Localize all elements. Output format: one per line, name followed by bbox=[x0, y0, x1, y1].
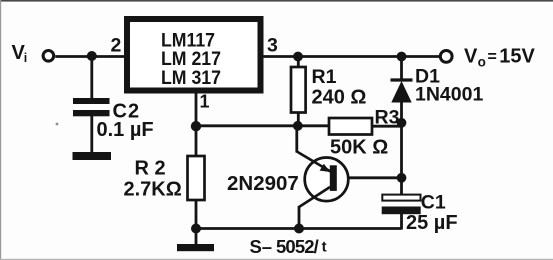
wire ground stub bbox=[195, 229, 198, 247]
wire collector lead bbox=[298, 206, 301, 230]
junction collector node bbox=[294, 224, 304, 234]
terminal Vo bbox=[440, 51, 452, 63]
svg-text:240 Ω: 240 Ω bbox=[312, 87, 367, 109]
ground main bbox=[177, 244, 214, 251]
node Vo = 15V label bbox=[464, 46, 536, 70]
wire pin 3 output rail bbox=[261, 55, 440, 58]
svg-text:C1: C1 bbox=[421, 192, 446, 214]
svg-text:1N4001: 1N4001 bbox=[415, 84, 483, 106]
svg-text:t: t bbox=[322, 239, 327, 256]
wire bottom rail bbox=[196, 227, 402, 230]
capacitor C1 plate top bbox=[382, 178, 420, 201]
svg-text:50K Ω: 50K Ω bbox=[330, 137, 388, 159]
junction R3 D1 node bbox=[397, 118, 407, 128]
diode D1 bbox=[391, 57, 413, 124]
svg-text:V: V bbox=[464, 46, 478, 68]
capacitor C2 plate top bbox=[73, 98, 110, 104]
junction D1 top bbox=[397, 52, 407, 62]
wire R1 bottom lead bbox=[297, 112, 300, 126]
wire emitter lead bbox=[295, 126, 298, 153]
svg-text:–: – bbox=[262, 236, 272, 257]
wire input node to C2 bbox=[90, 57, 93, 100]
svg-text:2.7KΩ: 2.7KΩ bbox=[124, 178, 182, 200]
bottom border line bbox=[0, 259, 553, 260]
svg-text:0.1 µF: 0.1 µF bbox=[97, 119, 154, 141]
node Vi label bbox=[12, 42, 28, 65]
scan speck bbox=[56, 123, 59, 126]
wire R1 top lead bbox=[297, 57, 300, 69]
svg-text:=: = bbox=[488, 49, 497, 66]
junction R1 top bbox=[293, 52, 303, 62]
wire pin 1 bbox=[195, 93, 198, 127]
terminal Vi bbox=[43, 51, 54, 62]
op-amp U1 regulator LM117/LM217/LM317 box bbox=[127, 19, 261, 91]
top border line bbox=[0, 0, 553, 2]
resistor R1 bbox=[291, 67, 306, 113]
svg-text:1: 1 bbox=[200, 91, 210, 111]
ground C2 bbox=[73, 152, 112, 160]
wire D1 node to base node bbox=[400, 123, 403, 178]
resistor R3 bbox=[329, 118, 372, 135]
capacitor C2 plate bottom bbox=[73, 110, 110, 116]
wire R3 right lead bbox=[372, 125, 402, 128]
junction input node bbox=[87, 51, 97, 61]
svg-text:R1: R1 bbox=[312, 66, 337, 88]
junction base node bbox=[397, 173, 407, 183]
svg-text:i: i bbox=[24, 51, 27, 65]
svg-text:S: S bbox=[250, 236, 262, 257]
transistor Q1 2N2907 bbox=[297, 152, 349, 208]
svg-text:25 µF: 25 µF bbox=[406, 212, 458, 234]
capacitor C1 plate bottom bbox=[382, 207, 421, 230]
wire adjust rail bbox=[196, 124, 330, 127]
resistor R2 bbox=[188, 126, 205, 230]
svg-text:2N2907: 2N2907 bbox=[227, 172, 299, 195]
wire Vi to pin 2 bbox=[55, 55, 127, 58]
svg-text:o: o bbox=[478, 55, 486, 70]
junction ground node bbox=[191, 224, 201, 234]
svg-text:R 2: R 2 bbox=[135, 158, 166, 180]
svg-text:3: 3 bbox=[267, 35, 278, 57]
junction adjust node bbox=[191, 121, 201, 131]
figure label S-5052/t bbox=[250, 236, 327, 257]
svg-text:LM 317: LM 317 bbox=[161, 68, 221, 89]
svg-text:/: / bbox=[314, 236, 319, 257]
svg-text:15V: 15V bbox=[499, 46, 535, 68]
svg-text:2: 2 bbox=[111, 34, 122, 56]
left border line bbox=[0, 0, 1, 260]
junction R1 bottom emitter node bbox=[293, 121, 303, 131]
wire C2 to ground bbox=[90, 116, 93, 153]
wire base bbox=[335, 176, 402, 179]
